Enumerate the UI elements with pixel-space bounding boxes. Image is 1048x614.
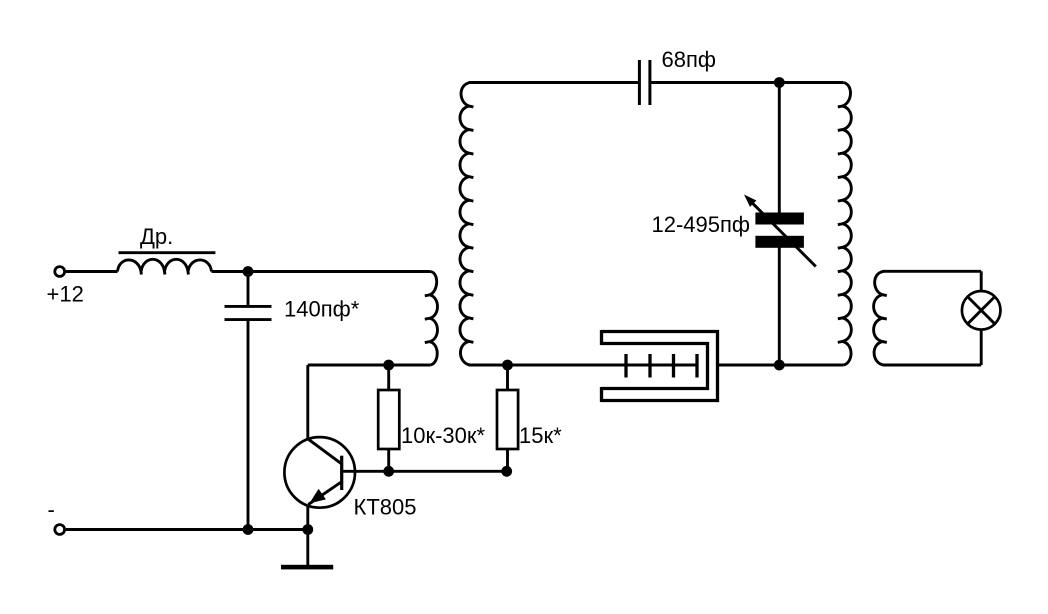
wire T2 right coil top to lamp bbox=[883, 270, 982, 273]
resistor R2 15к body bbox=[497, 390, 518, 449]
capacitor 140пф plates bbox=[225, 305, 272, 308]
svg-text:12-495пф: 12-495пф bbox=[652, 212, 751, 237]
wire R1 top lead bbox=[387, 365, 390, 390]
svg-text:140пф*: 140пф* bbox=[284, 297, 360, 322]
wire base rail bbox=[342, 470, 507, 473]
choke overline bbox=[119, 251, 216, 254]
inductor choke Др. bbox=[118, 259, 212, 274]
svg-text:68пф: 68пф bbox=[662, 47, 716, 72]
wire R2 top lead bbox=[506, 365, 509, 390]
wire variable capacitor to bottom rail bbox=[778, 246, 781, 365]
spark plug thread ticks bbox=[624, 354, 627, 378]
node bottom capacitor junction bbox=[243, 524, 254, 535]
terminal minus bbox=[55, 525, 65, 535]
wire emitter node to ground bbox=[306, 530, 309, 566]
transformer secondary coil bbox=[460, 83, 473, 366]
node bottom emitter junction bbox=[302, 524, 313, 535]
transistor base bar bbox=[340, 456, 343, 490]
transformer T2 left coil bbox=[838, 83, 852, 366]
capacitor 68пф plates bbox=[638, 60, 641, 105]
wire choke to node A bbox=[212, 270, 249, 273]
node C bottom junction bbox=[774, 360, 785, 371]
wire R2 bottom lead bbox=[506, 449, 509, 471]
lamp HL1 circle bbox=[962, 291, 1001, 330]
transformer T2 right coil bbox=[874, 271, 887, 365]
wire lamp bottom to T2 right coil bbox=[980, 329, 983, 365]
lamp cross bbox=[968, 297, 995, 324]
node resistor R1 top bbox=[383, 360, 394, 371]
svg-text:15к*: 15к* bbox=[519, 423, 562, 448]
svg-text:КТ805: КТ805 bbox=[354, 495, 417, 520]
transistor emitter arrow bbox=[309, 489, 326, 504]
wire capacitor 68пф to node B bbox=[650, 81, 843, 84]
node B top junction bbox=[774, 77, 785, 88]
transistor emitter diagonal bbox=[308, 482, 341, 505]
transformer primary coil bbox=[425, 272, 438, 366]
bottom rail wire bbox=[66, 528, 308, 531]
spark plug body outer bbox=[601, 332, 718, 401]
svg-text:10к-30к*: 10к-30к* bbox=[401, 423, 486, 448]
node R2 bottom bbox=[501, 466, 512, 477]
spark plug body inner bbox=[601, 344, 708, 389]
wire node A down to capacitor 140пф bbox=[247, 272, 250, 307]
variable capacitor arrow bbox=[749, 200, 816, 267]
node A junction dot bbox=[243, 266, 254, 277]
svg-text:Др.: Др. bbox=[140, 224, 173, 249]
wire collector from rail down bbox=[306, 365, 309, 439]
transistor Q1 KT805 body circle bbox=[284, 437, 355, 508]
resistor R1 10к-30к body bbox=[378, 390, 399, 449]
spark plug left end caps bbox=[600, 330, 603, 345]
svg-text:-: - bbox=[48, 497, 55, 522]
wire emitter down bbox=[306, 506, 309, 530]
wire secondary bottom to spark plug electrode bbox=[469, 364, 697, 367]
svg-text:+12: +12 bbox=[47, 282, 84, 307]
wire secondary top to capacitor 68пф bbox=[469, 81, 640, 84]
wire capacitor to bottom rail bbox=[247, 320, 250, 530]
wire spark plug to node C bbox=[719, 364, 843, 367]
wire collector rail bbox=[308, 364, 431, 367]
transistor collector diagonal bbox=[308, 439, 342, 464]
wire R1 bottom lead bbox=[387, 449, 390, 471]
wire node A to primary coil bbox=[248, 270, 431, 273]
ground bbox=[281, 565, 333, 570]
wire +12 to choke bbox=[66, 270, 118, 273]
variable capacitor C 12-495пф plates bbox=[755, 213, 804, 225]
wire node B down to variable capacitor bbox=[778, 83, 781, 215]
terminal +12 bbox=[55, 267, 65, 277]
node R2 top junction bbox=[502, 360, 513, 371]
node R1 bottom bbox=[383, 466, 394, 477]
